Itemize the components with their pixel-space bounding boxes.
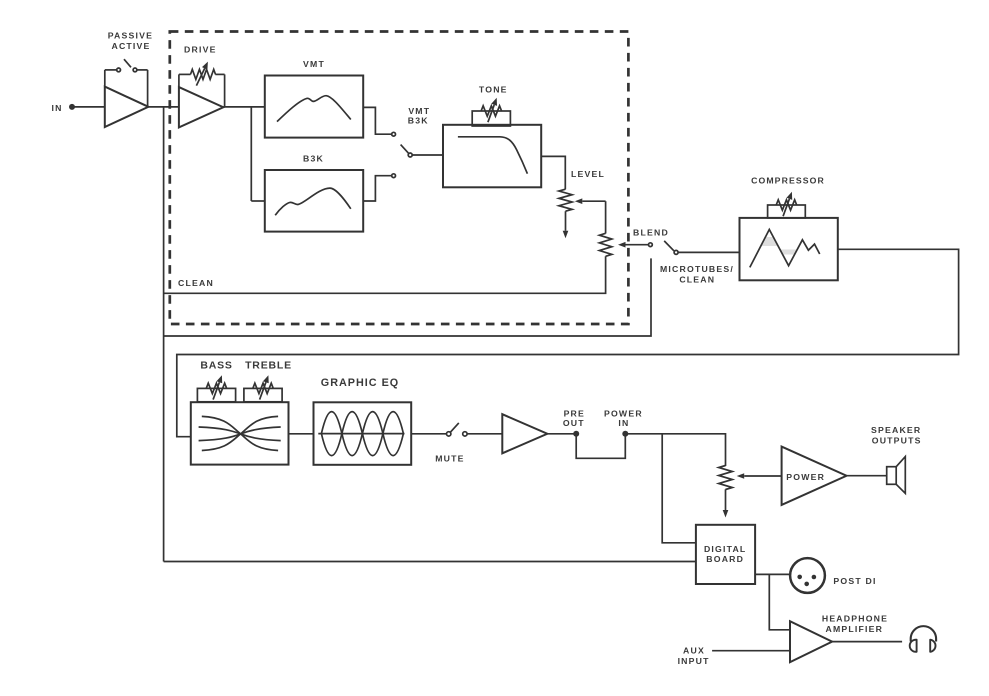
svg-text:CLEAN: CLEAN (178, 278, 214, 288)
svg-text:MICROTUBES/: MICROTUBES/ (660, 264, 734, 274)
svg-text:VMT: VMT (303, 59, 325, 69)
block BASS TREBLE EQ (191, 402, 289, 464)
headphones jack icon (910, 626, 936, 652)
block GRAPHIC EQ (314, 402, 412, 465)
potentiometer R-LEVEL (559, 189, 572, 211)
shading compressor waveform (761, 237, 797, 255)
switch S2 contact B3K (392, 174, 396, 178)
wire U1 feedback top right (137, 69, 148, 71)
switch S2 contact VMT (392, 132, 396, 136)
potentiometer R-TREBLE (244, 388, 282, 401)
block DIGITAL BOARD (696, 525, 755, 584)
node clean tap junction (163, 107, 165, 562)
wire AUX INPUT to headphone amp (712, 650, 790, 652)
svg-text:POST DI: POST DI (833, 576, 876, 586)
wire U3 output to PRE OUT (547, 433, 576, 435)
speaker LS1 (887, 457, 906, 494)
switch S3 contact blend (649, 243, 653, 247)
arrow R-LEVEL wiper (582, 200, 605, 202)
svg-text:GRAPHIC EQ: GRAPHIC EQ (321, 377, 399, 389)
switch S4 MUTE contact a (447, 432, 451, 436)
wire R-LEVEL lower leg with arrow (565, 211, 567, 231)
op-amp U4 power amp (782, 447, 847, 505)
wire graphic EQ to mute switch (411, 433, 446, 435)
wire headphone amp to phones (832, 641, 902, 643)
wire EQ to graphic EQ (289, 433, 314, 435)
wire S3 pole to compressor (678, 251, 739, 253)
svg-text:SPEAKER: SPEAKER (871, 425, 921, 435)
wire junction down to headphone amp (769, 574, 790, 629)
op-amp U3 pre out driver (502, 414, 547, 453)
potentiometer R-TONE (472, 111, 510, 126)
svg-text:OUTPUTS: OUTPUTS (872, 435, 922, 445)
wire clean throw to clean rail (164, 258, 651, 336)
curve VMT response (277, 96, 351, 122)
curve compressor waveform (750, 230, 820, 268)
label SPEAKER OUTPUTS (871, 425, 922, 446)
curve B3K response (275, 188, 351, 215)
svg-text:BOARD: BOARD (706, 554, 744, 564)
potentiometer R-BLEND (599, 233, 611, 256)
op-amp U1 input buffer (105, 87, 149, 127)
curves graphic EQ sine waves (321, 412, 403, 456)
svg-text:PASSIVE: PASSIVE (108, 30, 153, 40)
wire U1 feedback left leg (104, 70, 106, 88)
wire U1 feedback top left (105, 69, 117, 71)
block B3K (265, 170, 363, 232)
svg-text:AMPLIFIER: AMPLIFIER (825, 624, 883, 634)
switch S4 MUTE lever (450, 423, 458, 432)
wire patch jumper pre out to power in (576, 436, 625, 458)
wire IN to buffer U1 (74, 106, 105, 108)
svg-text:OUT: OUT (563, 418, 585, 428)
switch S3 lever (664, 241, 674, 251)
label PASSIVE ACTIVE (108, 30, 153, 51)
switch S1 PASSIVE/ACTIVE contact b (133, 68, 137, 72)
svg-text:IN: IN (51, 103, 62, 113)
label MICROTUBES CLEAN (660, 264, 734, 285)
switch S2 pole (408, 153, 412, 157)
svg-text:B3K: B3K (303, 154, 324, 164)
label AUX INPUT (678, 645, 710, 666)
svg-text:POWER: POWER (786, 472, 825, 482)
svg-text:AUX: AUX (683, 645, 705, 655)
svg-text:LEVEL: LEVEL (571, 169, 605, 179)
wire power in to master pot (625, 434, 725, 466)
block TONE filter (443, 125, 541, 188)
wire U2 output to VMT (223, 106, 264, 108)
svg-text:MUTE: MUTE (435, 454, 464, 464)
wire TONE output (541, 156, 565, 189)
wire U2 feedback right leg (224, 74, 226, 107)
wire level wiper to blend pot (605, 201, 607, 233)
switch S2 lever (401, 145, 409, 154)
arrow R-BLEND wiper (626, 244, 649, 246)
curve TONE lowpass response (458, 137, 528, 174)
label VMT B3K selector (408, 106, 430, 126)
wire mute to preamp U3 (467, 433, 502, 435)
arrow R-MASTER wiper from power amp (744, 475, 781, 477)
svg-text:DIGITAL: DIGITAL (704, 544, 747, 554)
connector XLR POST DI (790, 558, 825, 593)
wire U1 feedback right leg (147, 70, 149, 107)
svg-text:B3K: B3K (408, 116, 429, 126)
wire clean rail to digital board (164, 561, 696, 563)
svg-text:INPUT: INPUT (678, 656, 710, 666)
dashed box distortion section (170, 32, 629, 325)
svg-text:IN: IN (618, 418, 629, 428)
svg-text:ACTIVE: ACTIVE (111, 41, 150, 51)
wire junction to digital board (662, 434, 696, 543)
wire blend bottom to clean rail (164, 256, 606, 293)
switch S4 MUTE contact b (463, 432, 467, 436)
potentiometer R-BASS (197, 388, 235, 401)
svg-text:HEADPHONE: HEADPHONE (822, 614, 888, 624)
node PRE OUT jack (573, 431, 579, 437)
block VMT (265, 76, 363, 138)
line graphic EQ axis (318, 433, 404, 435)
label PRE OUT (563, 409, 585, 428)
svg-text:BLEND: BLEND (633, 228, 669, 238)
switch S1 PASSIVE/ACTIVE lever (124, 59, 131, 67)
wire selector pole to TONE (412, 154, 443, 156)
wire U2 feedback left leg (178, 74, 180, 87)
label POWER IN (604, 409, 643, 428)
svg-text:BASS: BASS (200, 360, 232, 372)
wire VMT output to selector contact (363, 107, 391, 134)
svg-text:COMPRESSOR: COMPRESSOR (751, 176, 825, 186)
wire U2 feedback top (179, 73, 191, 75)
wire compressor output return (177, 249, 959, 436)
wire power amp to speaker (847, 475, 887, 477)
svg-text:DRIVE: DRIVE (184, 44, 217, 54)
op-amp U5 headphone amplifier (790, 621, 832, 662)
op-amp U2 drive amp (179, 87, 223, 127)
svg-text:VMT: VMT (408, 106, 430, 116)
node POWER IN jack (622, 431, 628, 437)
block COMPRESSOR (740, 218, 838, 280)
svg-text:TONE: TONE (479, 85, 508, 95)
wire B3K output to selector contact (363, 176, 391, 201)
node IN (51, 103, 75, 113)
wire U1 output to drive amp U2 (148, 106, 179, 108)
arrow R-DRIVE wiper (196, 68, 204, 85)
svg-text:TREBLE: TREBLE (245, 360, 292, 372)
curves tone stack response (199, 416, 281, 450)
variable resistor R-DRIVE (191, 69, 216, 79)
switch S1 PASSIVE/ACTIVE contact a (117, 68, 121, 72)
switch S3 pole MICROTUBES/CLEAN (674, 250, 678, 254)
potentiometer R-COMP (768, 205, 806, 218)
svg-text:CLEAN: CLEAN (679, 274, 715, 284)
potentiometer R-MASTER (719, 466, 733, 490)
label DIGITAL BOARD (704, 544, 747, 564)
wire junction down to B3K input (250, 107, 252, 201)
label HEADPHONE AMPLIFIER (822, 614, 888, 634)
wire digital board output junction (755, 573, 790, 575)
wire master pot lower leg with arrow (725, 489, 727, 510)
